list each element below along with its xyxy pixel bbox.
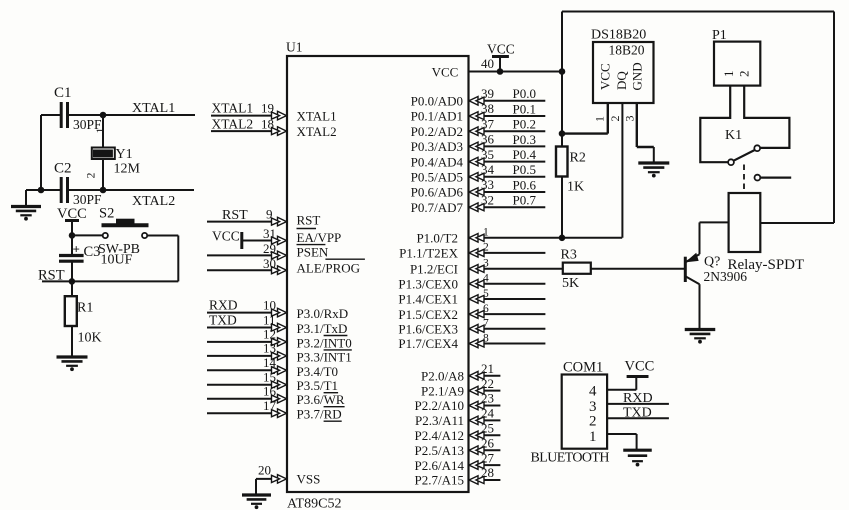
svg-text:P0.0: P0.0 — [513, 86, 536, 101]
svg-text:GND: GND — [630, 62, 645, 90]
wire P1.4/CEX1 pin 5 — [469, 298, 546, 300]
wire P1.6/CEX3 pin 7 — [469, 328, 546, 330]
svg-text:12M: 12M — [114, 162, 141, 177]
junction VCC rail — [559, 69, 565, 75]
ground COM1 — [623, 449, 652, 452]
wire XTAL1 pin 19 — [211, 115, 287, 117]
wire P1.0/T2 pin 1 — [469, 237, 623, 239]
wire P1.7/CEX4 pin 8 — [469, 343, 546, 345]
wire top loop horizontal — [562, 11, 834, 13]
wire XTAL2 pin 18 — [211, 130, 287, 132]
svg-text:P3.0/RxD: P3.0/RxD — [297, 306, 349, 321]
svg-text:Relay-SPDT: Relay-SPDT — [728, 257, 805, 273]
wire P3.2/INT0 pin 12 — [207, 341, 287, 343]
svg-text:P0.1: P0.1 — [513, 101, 536, 116]
svg-text:35: 35 — [481, 147, 494, 162]
svg-text:P2.2/A10: P2.2/A10 — [415, 398, 464, 413]
junction RST — [69, 279, 75, 285]
capacitor C1 — [54, 85, 102, 132]
svg-text:P1.5/CEX2: P1.5/CEX2 — [398, 307, 458, 322]
svg-text:18: 18 — [261, 117, 274, 132]
svg-text:R3: R3 — [561, 248, 577, 263]
wire P3.0/RxD pin 10 — [207, 312, 287, 314]
wire P0.2/AD2 pin 37 — [469, 130, 546, 132]
svg-text:24: 24 — [481, 406, 495, 421]
svg-text:RST: RST — [222, 208, 248, 223]
wire C1 left — [41, 114, 61, 116]
capacitor C3 — [59, 235, 133, 281]
svg-text:P2.5/A13: P2.5/A13 — [415, 443, 464, 458]
svg-text:P0.2: P0.2 — [513, 117, 536, 132]
wire COM1 pin4 to VCC — [607, 389, 636, 391]
svg-text:P0.3: P0.3 — [513, 132, 536, 147]
svg-text:P0.7: P0.7 — [513, 193, 537, 208]
wire P0.5/AD5 pin 34 — [469, 176, 546, 178]
svg-text:AT89C52: AT89C52 — [287, 497, 341, 510]
svg-text:P0.5/AD5: P0.5/AD5 — [411, 170, 463, 185]
svg-text:P2.7/A15: P2.7/A15 — [415, 473, 464, 488]
capacitor C2 — [54, 161, 102, 208]
junction C1/C2 left — [38, 187, 44, 193]
wire P0.1/AD1 pin 38 — [469, 115, 546, 117]
wire P1.2/ECI pin 3 — [469, 268, 563, 270]
wire ground drop left — [25, 190, 27, 206]
wire RST stub — [42, 280, 72, 282]
wire ALE/PROG pin 30 — [207, 269, 287, 271]
svg-text:P1.1/T2EX: P1.1/T2EX — [399, 246, 458, 261]
wire loop to relay coil — [760, 222, 834, 224]
wire VSS pin 20 — [256, 478, 287, 480]
svg-text:27: 27 — [481, 450, 495, 465]
svg-text:P0.5: P0.5 — [513, 162, 536, 177]
svg-text:P1.4/CEX1: P1.4/CEX1 — [398, 292, 458, 307]
ground Q — [685, 328, 716, 331]
svg-text:R1: R1 — [77, 301, 93, 316]
svg-text:DS18B20: DS18B20 — [591, 28, 646, 43]
junction crystal top — [100, 112, 106, 118]
svg-text:TXD: TXD — [623, 405, 652, 420]
svg-text:P1.6/CEX3: P1.6/CEX3 — [398, 321, 458, 336]
svg-text:P0.2/AD2: P0.2/AD2 — [411, 124, 463, 139]
svg-text:16: 16 — [263, 384, 277, 399]
svg-text:XTAL1: XTAL1 — [132, 101, 175, 116]
crystal Y1 — [85, 115, 140, 190]
underline WR — [324, 406, 345, 408]
wire C2 left to ground — [26, 189, 61, 191]
ground VSS — [242, 493, 271, 496]
resistor R3 — [561, 248, 591, 292]
svg-text:13: 13 — [263, 341, 276, 356]
IC DS18B20 — [591, 28, 654, 104]
svg-text:COM1: COM1 — [563, 360, 603, 376]
wire left vertical C1-C2 — [40, 115, 42, 190]
svg-text:1: 1 — [592, 116, 606, 122]
relay second throw contact — [755, 175, 761, 181]
wire COM1 pin3 RXD — [607, 403, 669, 405]
svg-text:10K: 10K — [78, 331, 102, 346]
wire P2.0/A8 pin 21 — [469, 375, 501, 377]
svg-text:25: 25 — [481, 421, 494, 436]
wire P3.7/RD pin 17 — [207, 412, 287, 414]
wire VCC to switch — [72, 234, 103, 236]
svg-text:2: 2 — [483, 242, 489, 254]
svg-text:36: 36 — [481, 132, 495, 147]
svg-text:P3.7/RD: P3.7/RD — [297, 407, 342, 422]
svg-text:XTAL1: XTAL1 — [212, 101, 254, 116]
svg-text:10UF: 10UF — [101, 253, 133, 268]
transistor Q? 2N3906 — [685, 222, 747, 328]
svg-text:Y1: Y1 — [116, 147, 133, 162]
svg-text:2: 2 — [737, 71, 752, 78]
wire P3.5/T1 pin 15 — [207, 384, 287, 386]
svg-text:10: 10 — [263, 297, 276, 312]
svg-text:XTAL1: XTAL1 — [297, 108, 337, 123]
svg-text:P2.6/A14: P2.6/A14 — [415, 458, 465, 473]
svg-text:P2.1/A9: P2.1/A9 — [421, 383, 464, 398]
svg-text:26: 26 — [481, 435, 495, 450]
svg-text:K1: K1 — [725, 128, 742, 143]
junction R2/P1.0 — [559, 235, 565, 241]
svg-text:P3.1/TxD: P3.1/TxD — [297, 321, 348, 336]
wire P0.0/AD0 pin 39 — [469, 100, 546, 102]
wire COM1 pin2 TXD — [607, 417, 669, 419]
svg-text:2: 2 — [85, 172, 97, 178]
power VCC (reset circuit) — [57, 206, 87, 235]
relay contacts K1 — [700, 86, 789, 165]
svg-text:RXD: RXD — [209, 297, 238, 312]
wire P1.3/CEX0 pin 4 — [469, 283, 546, 285]
svg-text:P2.4/A12: P2.4/A12 — [415, 428, 464, 443]
svg-text:P0.0/AD0: P0.0/AD0 — [411, 94, 463, 109]
svg-text:12: 12 — [263, 327, 276, 342]
junction DS18B20 pin1 tap — [559, 131, 565, 137]
svg-text:ALE/PROG: ALE/PROG — [297, 260, 361, 275]
svg-text:VCC: VCC — [432, 64, 459, 79]
svg-text:S2: S2 — [99, 206, 114, 222]
svg-text:VCC: VCC — [212, 228, 240, 243]
wire VCC pin 40 — [469, 71, 563, 73]
svg-text:BLUETOOTH: BLUETOOTH — [531, 451, 610, 466]
svg-text:31: 31 — [263, 226, 276, 241]
wire P2.4/A12 pin 25 — [469, 434, 501, 436]
wire P0.6/AD6 pin 33 — [469, 191, 546, 193]
svg-text:R2: R2 — [570, 151, 586, 166]
svg-text:PSEN: PSEN — [297, 245, 329, 260]
wire switch right leg — [147, 235, 178, 237]
svg-text:37: 37 — [481, 116, 495, 131]
svg-text:4: 4 — [483, 273, 489, 285]
svg-text:P2.0/A8: P2.0/A8 — [421, 368, 464, 383]
svg-text:TXD: TXD — [209, 312, 237, 327]
svg-text:P0.4/AD4: P0.4/AD4 — [411, 154, 464, 169]
svg-text:EA/VPP: EA/VPP — [297, 230, 342, 245]
junction pin40/VCC — [497, 69, 503, 75]
power VCC (COM1) — [625, 359, 655, 377]
wire P3.1/TxD pin 11 — [207, 327, 287, 329]
svg-text:XTAL2: XTAL2 — [132, 194, 175, 209]
wire R2 bottom to P1.0 — [561, 177, 563, 238]
underline TxD — [324, 335, 348, 337]
svg-text:32: 32 — [481, 192, 494, 207]
svg-text:21: 21 — [481, 361, 494, 376]
svg-text:P1.3/CEX0: P1.3/CEX0 — [398, 276, 458, 291]
connector P1 — [712, 28, 760, 86]
wire coil left to Q emitter — [700, 221, 729, 223]
svg-text:RXD: RXD — [623, 391, 653, 406]
svg-text:P2.3/A11: P2.3/A11 — [415, 413, 464, 428]
junction VCC/S2/C3 — [69, 233, 75, 239]
svg-text:P1.7/CEX4: P1.7/CEX4 — [398, 336, 458, 351]
svg-text:7: 7 — [483, 318, 489, 330]
svg-text:P0.4: P0.4 — [513, 147, 537, 162]
svg-text:38: 38 — [481, 101, 494, 116]
wire VSS ground drop — [255, 479, 257, 494]
wire P3.6/WR pin 16 — [207, 398, 287, 400]
relay coil Relay-SPDT — [728, 193, 805, 273]
svg-text:2: 2 — [589, 414, 597, 430]
wire C1 to XTAL1 net — [68, 114, 196, 116]
svg-text:P0.6/AD6: P0.6/AD6 — [411, 185, 464, 200]
svg-text:33: 33 — [481, 177, 494, 192]
svg-text:29: 29 — [263, 241, 276, 256]
wire P0.3/AD3 pin 36 — [469, 145, 546, 147]
svg-text:19: 19 — [261, 101, 274, 116]
svg-text:5: 5 — [483, 288, 489, 300]
underline INT0 — [324, 349, 352, 351]
resistor R2 — [556, 147, 586, 195]
svg-text:XTAL2: XTAL2 — [297, 124, 337, 139]
svg-text:VSS: VSS — [297, 472, 321, 487]
ground left — [11, 205, 41, 208]
wire VCC rail down to R2 — [561, 72, 563, 147]
svg-text:3: 3 — [623, 116, 637, 122]
connector COM1 — [562, 360, 607, 449]
svg-text:U1: U1 — [286, 40, 303, 55]
wire P2.6/A14 pin 27 — [469, 464, 501, 466]
wire COM1 pin1 to ground — [607, 433, 637, 435]
svg-text:2: 2 — [608, 116, 622, 122]
svg-text:P0.1/AD1: P0.1/AD1 — [411, 109, 463, 124]
wire P2.3/A11 pin 24 — [469, 419, 501, 421]
svg-text:34: 34 — [481, 162, 495, 177]
op-amp U1 AT89C52 MCU box — [286, 40, 469, 510]
wire C2 right / XTAL2 net — [68, 189, 195, 191]
underline T1 — [324, 392, 339, 394]
ground R1 — [57, 355, 88, 358]
svg-text:P3.3/INT1: P3.3/INT1 — [297, 349, 352, 364]
wire loop right vertical — [833, 12, 835, 224]
svg-text:1K: 1K — [567, 180, 584, 195]
svg-text:23: 23 — [481, 391, 494, 406]
svg-text:17: 17 — [263, 398, 277, 413]
svg-text:30PF: 30PF — [73, 192, 102, 207]
svg-text:P3.6/WR: P3.6/WR — [297, 392, 345, 407]
svg-text:22: 22 — [481, 376, 494, 391]
svg-text:3: 3 — [483, 258, 489, 270]
svg-text:P1.0/T2: P1.0/T2 — [416, 231, 458, 246]
svg-text:20: 20 — [258, 463, 271, 478]
svg-text:1: 1 — [589, 429, 597, 445]
svg-text:9: 9 — [266, 207, 273, 222]
wire VCC rail up to loop — [561, 12, 563, 72]
ground DS18B20 — [638, 161, 669, 164]
wire PSEN pin 29 — [207, 254, 287, 256]
svg-text:P3.2/INT0: P3.2/INT0 — [297, 335, 352, 350]
wire R3 to Q base — [591, 268, 684, 270]
wire P2.7/A15 pin 28 — [469, 479, 501, 481]
switch S2 SW-PB — [98, 206, 149, 258]
svg-text:39: 39 — [481, 86, 494, 101]
svg-text:P0.6: P0.6 — [513, 177, 537, 192]
wire P2.2/A10 pin 23 — [469, 405, 501, 407]
svg-text:C1: C1 — [54, 85, 72, 101]
svg-text:P0.7/AD7: P0.7/AD7 — [411, 200, 464, 215]
wire P1.5/CEX2 pin 6 — [469, 313, 546, 315]
wire RST pin 9 — [207, 221, 287, 223]
wire P3.4/T0 pin 14 — [207, 369, 287, 371]
junction crystal bottom — [100, 187, 106, 193]
wire P2.5/A13 pin 26 — [469, 449, 501, 451]
svg-text:5K: 5K — [562, 276, 579, 291]
svg-text:P3.4/T0: P3.4/T0 — [297, 364, 339, 379]
svg-text:15: 15 — [263, 370, 276, 385]
svg-text:18B20: 18B20 — [609, 43, 645, 58]
svg-text:P0.3/AD3: P0.3/AD3 — [411, 139, 463, 154]
svg-text:30: 30 — [263, 256, 276, 271]
svg-text:VCC: VCC — [487, 41, 515, 56]
wire P3.3/INT1 pin 13 — [207, 355, 287, 357]
svg-text:VCC: VCC — [625, 359, 655, 375]
underline RD — [324, 420, 342, 422]
svg-text:4: 4 — [589, 384, 597, 400]
svg-text:8: 8 — [483, 332, 489, 344]
svg-text:XTAL2: XTAL2 — [212, 117, 254, 132]
svg-text:1: 1 — [95, 127, 107, 133]
svg-text:RST: RST — [297, 213, 321, 228]
svg-text:40: 40 — [481, 56, 494, 71]
svg-text:P1.2/ECI: P1.2/ECI — [410, 262, 458, 277]
svg-text:VCC: VCC — [598, 63, 613, 90]
svg-text:C2: C2 — [54, 161, 72, 177]
svg-text:DQ: DQ — [614, 71, 629, 90]
svg-text:6: 6 — [483, 303, 489, 315]
svg-text:C3: C3 — [84, 244, 101, 260]
wire P0.4/AD4 pin 35 — [469, 161, 546, 163]
wire P2.1/A9 pin 22 — [469, 390, 501, 392]
dashed actuator link — [743, 165, 745, 192]
svg-text:28: 28 — [481, 465, 494, 480]
wire P0.7/AD7 pin 32 — [469, 206, 546, 208]
svg-text:14: 14 — [263, 355, 277, 370]
svg-text:1: 1 — [721, 71, 736, 78]
svg-text:1: 1 — [483, 227, 489, 239]
svg-text:P3.5/T1: P3.5/T1 — [297, 378, 339, 393]
resistor R1 — [65, 281, 102, 356]
svg-text:Q?: Q? — [704, 255, 720, 270]
svg-text:11: 11 — [263, 312, 276, 327]
wire P1.1/T2EX pin 2 — [469, 252, 546, 254]
